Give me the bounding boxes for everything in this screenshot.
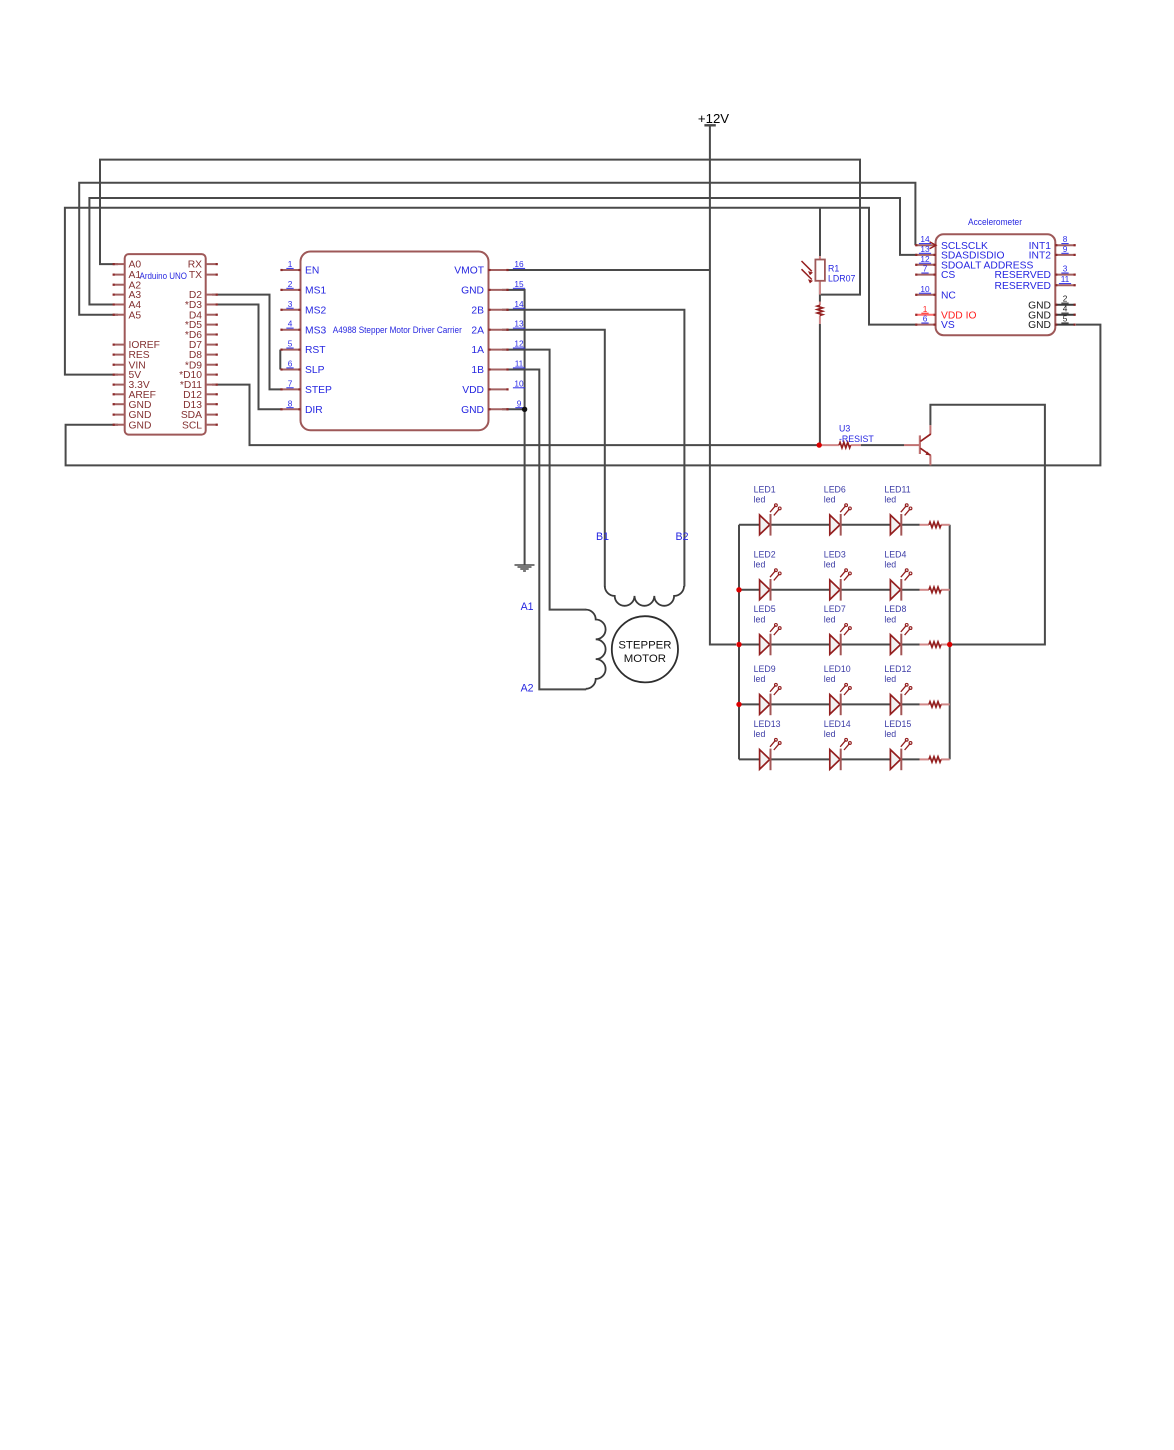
svg-text:CS: CS	[941, 270, 955, 281]
Accelerometer pin 2 GND (right)	[1028, 294, 1076, 312]
Arduino pin D2 (right, y=294.6)	[189, 290, 218, 301]
A4988 pin 14 2B	[471, 299, 525, 317]
svg-text:13: 13	[920, 244, 930, 254]
stepper coil A (vertical)	[586, 610, 606, 689]
LED LED12	[884, 664, 911, 715]
wire LED row 4	[739, 703, 920, 705]
wire LDR bottom node down through series resistor to node	[819, 281, 821, 302]
svg-text:LED2: LED2	[754, 549, 776, 559]
wire 2A to motor B1	[502, 330, 605, 587]
svg-text:-RESIST: -RESIST	[839, 434, 874, 444]
svg-text:11: 11	[1061, 274, 1070, 284]
Arduino pin VIN (left, y=364.7)	[113, 360, 146, 371]
svg-text:led: led	[824, 495, 836, 505]
Accelerometer pin 14 SCLSCLK	[915, 234, 988, 252]
svg-text:8: 8	[1063, 234, 1068, 244]
svg-text:10: 10	[514, 378, 524, 388]
wire D11 to base-resistor node	[212, 385, 819, 446]
node junction GND9	[522, 407, 527, 412]
A4988 pin 15 GND	[461, 279, 525, 297]
Arduino pin *D11 (right, y=384.6)	[180, 380, 218, 391]
wire LDR top branch to 5V rail	[819, 208, 821, 256]
LED LED2	[754, 549, 782, 600]
Accelerometer pin 4 GND (right)	[1028, 304, 1076, 322]
LED LED15	[884, 719, 911, 770]
svg-text:9: 9	[1063, 244, 1068, 254]
wire GND9 stub to ground net	[502, 408, 525, 410]
Accelerometer clock arrow on pin 14	[930, 242, 937, 249]
svg-text:STEPPER: STEPPER	[618, 640, 671, 652]
wire A4 to SDA (accelerometer pin 13)	[89, 198, 917, 305]
svg-text:LED5: LED5	[754, 604, 776, 614]
svg-text:MS1: MS1	[305, 286, 326, 297]
Accelerometer pin 12 SDOALT ADDRESS	[915, 254, 1033, 272]
Accelerometer pin 13 SDASDISDIO	[915, 244, 1004, 262]
stepper coil B (horizontal)	[605, 586, 684, 606]
Arduino pin GND (left, y=404.2)	[113, 400, 152, 411]
svg-text:2A: 2A	[471, 325, 484, 336]
svg-text:A1: A1	[521, 601, 534, 613]
svg-text:1B: 1B	[471, 365, 484, 376]
wire LED row 2	[739, 589, 920, 591]
Arduino pin *D5 (right, y=324.6)	[185, 320, 218, 331]
Arduino pin A0 (left, y=264.1)	[113, 260, 142, 271]
svg-text:LED11: LED11	[884, 484, 910, 494]
svg-text:SLP: SLP	[305, 365, 325, 376]
svg-text:TX: TX	[189, 270, 202, 281]
Arduino pin IOREF (left, y=344.6)	[113, 340, 160, 351]
wire 2B to motor B2	[502, 310, 684, 587]
svg-text:MOTOR: MOTOR	[624, 653, 666, 665]
photoresistor R1 LDR07	[802, 256, 856, 295]
resistor U3 -RESIST	[819, 424, 874, 448]
svg-text:A5: A5	[129, 310, 142, 321]
wire LED matrix right bus	[949, 525, 951, 760]
svg-text:led: led	[824, 729, 836, 739]
Arduino pin 5V (left, y=374.6)	[113, 370, 142, 381]
svg-text:15: 15	[514, 279, 524, 289]
LED LED4	[884, 549, 911, 600]
Arduino UNO U-module	[125, 254, 206, 435]
svg-text:11: 11	[515, 359, 524, 369]
Accelerometer pin 11 RESERVED (right)	[995, 274, 1076, 292]
svg-text:led: led	[884, 674, 896, 684]
Arduino pin SCL (right, y=424.7)	[182, 420, 218, 431]
svg-text:LDR07: LDR07	[828, 274, 855, 284]
A4988 pin 4 MS3	[280, 319, 326, 337]
Accelerometer pin 10 NC	[915, 284, 956, 302]
LED LED14	[824, 719, 852, 770]
svg-text:GND: GND	[461, 405, 484, 416]
Accelerometer pin 1 VDD IO	[915, 304, 976, 322]
Arduino pin A4 (left, y=304.5)	[113, 300, 142, 311]
svg-text:VMOT: VMOT	[454, 266, 484, 277]
Arduino pin TX (right, y=274.6)	[189, 270, 218, 281]
Arduino pin 3.3V (left, y=384.6)	[113, 380, 150, 391]
wire A5 to SCL (accelerometer pin 14)	[79, 183, 915, 315]
wire LED row3 to transistor collector	[930, 405, 1045, 645]
svg-text:EN: EN	[305, 266, 319, 277]
node junction (949.7,644.5)	[947, 642, 952, 647]
svg-text:14: 14	[514, 299, 524, 309]
Arduino pin GND (left, y=414.6)	[113, 410, 152, 421]
svg-text:LED8: LED8	[884, 604, 906, 614]
svg-text:RST: RST	[305, 345, 326, 356]
svg-text:A4988 Stepper Motor Driver Car: A4988 Stepper Motor Driver Carrier	[333, 325, 462, 335]
svg-text:LED13: LED13	[754, 719, 781, 729]
svg-text:6: 6	[288, 359, 293, 369]
svg-text:2: 2	[288, 279, 293, 289]
svg-text:led: led	[754, 495, 766, 505]
svg-text:10: 10	[920, 284, 930, 294]
svg-text:1: 1	[923, 304, 928, 314]
svg-text:GND: GND	[129, 400, 152, 411]
svg-text:2: 2	[1063, 294, 1068, 304]
LED LED10	[824, 664, 852, 715]
A4988 pin 16 VMOT	[454, 259, 525, 277]
Arduino pin *D10 (right, y=374.6)	[179, 370, 218, 381]
Arduino pin A3 (left, y=294.6)	[113, 290, 142, 301]
svg-text:LED6: LED6	[824, 484, 846, 494]
svg-text:B2: B2	[676, 531, 689, 543]
node junction (819.2,445.1)	[817, 442, 822, 447]
Arduino pin RES (left, y=354.6)	[113, 350, 150, 361]
svg-text:LED9: LED9	[754, 664, 776, 674]
svg-text:DIR: DIR	[305, 405, 323, 416]
A4988 pin 11 1B	[471, 359, 525, 377]
LED LED9	[754, 664, 782, 715]
LED LED7	[824, 604, 852, 655]
Accelerometer U-module	[936, 217, 1056, 335]
stepper motor body	[612, 616, 678, 682]
svg-text:8: 8	[288, 398, 293, 408]
svg-text:D13: D13	[183, 400, 202, 411]
A4988 Stepper Motor Driver Carrier U-module	[301, 252, 489, 431]
LED LED3	[824, 549, 852, 600]
svg-text:12: 12	[920, 254, 930, 264]
resistor LED row 5	[920, 757, 950, 762]
svg-text:5: 5	[288, 339, 293, 349]
Arduino pin A5 (left, y=314.7)	[113, 310, 142, 321]
wire 1B to motor A2	[502, 370, 586, 690]
svg-text:7: 7	[923, 264, 928, 274]
LED LED13	[754, 719, 782, 770]
A4988 pin 3 MS2	[280, 299, 326, 317]
A4988 pin 5 RST	[280, 339, 326, 357]
A4988 pin 2 MS1	[280, 279, 326, 297]
ground	[515, 565, 535, 571]
svg-text:GND: GND	[129, 420, 152, 431]
svg-text:LED7: LED7	[824, 604, 846, 614]
svg-text:led: led	[884, 729, 896, 739]
wire 5V to LDR top and accelerometer VS	[65, 208, 917, 375]
svg-text:GND: GND	[1028, 320, 1051, 331]
svg-text:Accelerometer: Accelerometer	[968, 217, 1022, 227]
svg-text:LED15: LED15	[884, 719, 911, 729]
Arduino pin D12 (right, y=394.3)	[183, 390, 218, 401]
A4988 pin 1 EN	[280, 259, 319, 277]
svg-text:16: 16	[514, 259, 524, 269]
svg-text:Arduino UNO: Arduino UNO	[140, 271, 188, 281]
Arduino pin *D3 (right, y=304.5)	[185, 300, 218, 311]
svg-text:led: led	[884, 560, 896, 570]
svg-text:led: led	[754, 674, 766, 684]
A4988 pin 13 2A	[471, 319, 525, 337]
wire 1A to motor A1	[502, 350, 586, 610]
A4988 pin 9 GND	[461, 398, 523, 416]
wire GND rail: Arduino GND to transistor emitter and accelerometer GND5	[66, 325, 1101, 466]
svg-text:led: led	[754, 729, 766, 739]
svg-text:INT2: INT2	[1029, 251, 1052, 262]
svg-text:+12V: +12V	[698, 111, 729, 126]
A4988 pin 12 1A	[471, 339, 525, 357]
transistor Q1 NPN	[904, 425, 931, 465]
node junction (739,589.8)	[736, 587, 741, 592]
svg-text:A2: A2	[521, 682, 534, 694]
svg-text:R1: R1	[828, 264, 839, 274]
svg-text:LED3: LED3	[824, 549, 846, 559]
LED LED5	[754, 604, 782, 655]
Accelerometer pin 3 RESERVED (right)	[995, 264, 1076, 282]
LED LED11	[884, 484, 911, 535]
Accelerometer pin 8 INT1 (right)	[1029, 234, 1076, 252]
wire LED row 3	[739, 644, 920, 646]
svg-text:LED12: LED12	[884, 664, 911, 674]
svg-text:led: led	[884, 495, 896, 505]
LED LED8	[884, 604, 911, 655]
svg-text:9: 9	[517, 398, 522, 408]
Accelerometer pin 7 CS	[915, 264, 955, 282]
wire LED matrix left bus	[738, 525, 740, 760]
svg-text:VS: VS	[941, 320, 955, 331]
wire LED row 5	[739, 758, 920, 760]
Arduino pin RX (right, y=264.1)	[188, 260, 218, 271]
svg-text:SCL: SCL	[182, 420, 202, 431]
svg-text:LED1: LED1	[754, 484, 776, 494]
Arduino pin AREF (left, y=394.3)	[113, 390, 156, 401]
svg-text:led: led	[884, 614, 896, 624]
LED LED6	[824, 484, 852, 535]
svg-text:VDD: VDD	[462, 385, 484, 396]
A4988 pin 8 DIR	[280, 398, 322, 416]
wire D3 to DIR	[212, 305, 281, 410]
Arduino pin D7 (right, y=344.6)	[189, 340, 218, 351]
wire VMOT to +12V	[502, 269, 710, 271]
resistor LED row 3	[920, 642, 950, 647]
svg-text:14: 14	[920, 234, 930, 244]
svg-text:STEP: STEP	[305, 385, 332, 396]
resistor LED row 1	[920, 522, 950, 527]
Arduino pin GND (left, y=424.7)	[113, 420, 152, 431]
wire D2 to STEP	[212, 295, 281, 390]
wire base resistor to transistor base	[861, 444, 904, 446]
svg-text:MS2: MS2	[305, 305, 326, 316]
svg-text:led: led	[824, 560, 836, 570]
resistor LED row 2	[920, 587, 950, 592]
svg-text:U3: U3	[839, 424, 850, 434]
svg-text:led: led	[754, 560, 766, 570]
LED LED1	[754, 484, 782, 535]
svg-text:4: 4	[288, 319, 293, 329]
Arduino pin *D6 (right, y=334.5)	[185, 330, 218, 341]
svg-text:RESERVED: RESERVED	[995, 281, 1051, 292]
resistor (LDR series divider)	[817, 302, 822, 325]
svg-text:led: led	[824, 614, 836, 624]
svg-text:MS3: MS3	[305, 325, 326, 336]
+12V supply symbol	[698, 111, 729, 126]
svg-text:led: led	[754, 614, 766, 624]
node junction (739,704.4)	[736, 702, 741, 707]
svg-text:7: 7	[288, 378, 293, 388]
svg-text:NC: NC	[941, 290, 956, 301]
svg-text:LED10: LED10	[824, 664, 851, 674]
Arduino pin SDA (right, y=414.6)	[181, 410, 218, 421]
svg-text:LED14: LED14	[824, 719, 851, 729]
svg-text:LED4: LED4	[884, 549, 906, 559]
Accelerometer pin 5 GND (right)	[1028, 314, 1076, 332]
svg-text:1A: 1A	[471, 345, 484, 356]
svg-text:RESERVED: RESERVED	[995, 270, 1051, 281]
Arduino pin D8 (right, y=354.6)	[189, 350, 218, 361]
Accelerometer pin 9 INT2 (right)	[1029, 244, 1076, 262]
svg-text:1: 1	[288, 259, 293, 269]
node junction (739,644.5)	[736, 642, 741, 647]
svg-text:13: 13	[514, 319, 524, 329]
Arduino pin *D9 (right, y=364.7)	[185, 360, 218, 371]
wire A0 to LDR divider output	[100, 160, 860, 295]
svg-text:led: led	[824, 674, 836, 684]
A4988 pin 10 VDD	[462, 378, 525, 396]
Arduino pin A2 (left, y=284.7)	[113, 280, 142, 291]
svg-text:4: 4	[1063, 304, 1068, 314]
wire RST-SLP jumper	[279, 350, 281, 370]
Arduino pin D13 (right, y=404.2)	[183, 400, 218, 411]
A4988 pin 7 STEP	[280, 378, 332, 396]
Accelerometer pin 6 VS	[915, 314, 955, 332]
wire +12V vertical down to LED matrix row 3	[710, 125, 736, 644]
resistor LED row 4	[920, 702, 950, 707]
wire GND15 down to ground	[502, 290, 525, 565]
svg-text:GND: GND	[461, 286, 484, 297]
wire LED row 1	[739, 524, 920, 526]
svg-text:2B: 2B	[471, 305, 484, 316]
svg-text:B1: B1	[596, 531, 609, 543]
Arduino pin D4 (right, y=314.7)	[189, 310, 218, 321]
svg-text:RX: RX	[188, 260, 202, 271]
svg-text:3: 3	[288, 299, 293, 309]
Arduino pin A1 (left, y=274.6)	[113, 270, 142, 281]
svg-text:A0: A0	[129, 260, 142, 271]
svg-text:3: 3	[1063, 264, 1068, 274]
A4988 pin 6 SLP	[280, 359, 324, 377]
svg-text:5: 5	[1063, 314, 1068, 324]
svg-text:6: 6	[923, 314, 928, 324]
svg-text:12: 12	[514, 339, 524, 349]
